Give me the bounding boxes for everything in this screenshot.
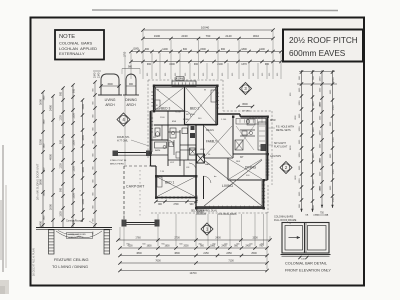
feature ceiling boxed note — [67, 233, 93, 239]
left dimension col 5 — [82, 100, 84, 222]
bed2 robe — [211, 90, 217, 102]
wall top bed block — [153, 85, 218, 87]
kitchen block interior — [232, 117, 234, 155]
note box — [55, 30, 104, 60]
border frame — [31, 18, 365, 286]
porch edge — [113, 152, 151, 154]
right dimension col 1 — [301, 70, 303, 212]
laundry tub — [182, 128, 188, 134]
feature ceiling line — [36, 227, 112, 229]
bath fixture — [155, 142, 167, 148]
gas hws box — [176, 77, 184, 81]
bottom dimension row 2 — [120, 247, 267, 249]
wall right bed2 — [216, 86, 218, 126]
porch pier right — [146, 151, 152, 157]
hall wall upper right — [217, 113, 240, 115]
utility extra lines — [168, 131, 180, 133]
left dimension col 2 — [52, 96, 54, 227]
porch pier left — [113, 151, 119, 157]
wall left mid — [150, 111, 152, 153]
shower dark square — [197, 154, 205, 163]
bed divider wall — [184, 87, 186, 111]
window sill — [281, 254, 331, 256]
bottom dimension row 3 — [120, 255, 267, 257]
dining arch detail — [126, 74, 136, 95]
bed1 cross — [157, 177, 195, 197]
living arch detail — [101, 74, 119, 95]
family cross — [204, 126, 232, 157]
living bottom wall — [196, 207, 264, 209]
bed3 bottom wall — [154, 110, 185, 112]
window detail inner frames — [285, 226, 303, 251]
right dims top connector line — [297, 83, 337, 85]
right dimension col 2 — [312, 70, 314, 212]
kitchen bench — [240, 129, 255, 131]
living cross — [204, 160, 262, 206]
section marker 1 — [201, 223, 213, 235]
top dimension row 4 — [131, 61, 281, 63]
kitchen cross — [236, 126, 254, 150]
left dimension col 1 — [42, 92, 44, 227]
section marker 4 — [117, 113, 130, 126]
feature ceiling left post — [49, 230, 55, 254]
left dimension col 4 — [72, 85, 74, 227]
left margin scan marks — [2, 145, 4, 272]
utility cluster walls — [154, 124, 196, 126]
window mullion — [304, 223, 306, 254]
house right wall upper — [267, 117, 269, 181]
section marker 2 — [280, 162, 292, 174]
corner blocks — [153, 85, 155, 87]
right dimension col 4 — [332, 70, 334, 208]
feature ceiling swag arcs — [56, 231, 102, 238]
pantry — [235, 140, 243, 150]
vanity fixture — [170, 128, 176, 138]
bed1 sub dims — [156, 201, 196, 203]
dim 8600 kitchen — [238, 106, 253, 108]
window arrow — [289, 237, 301, 239]
eaves dashed outline — [148, 79, 223, 81]
left dimension col 3 — [62, 88, 64, 227]
family dining wall — [232, 154, 234, 158]
dining cross — [229, 159, 262, 179]
inner wall lines cavity — [154, 87, 156, 110]
door arcs — [185, 111, 191, 117]
left dimension col 6 — [94, 82, 96, 227]
entry steps — [196, 209, 204, 211]
carport pier left — [122, 220, 127, 227]
kitchen top wall — [240, 116, 268, 118]
feature ceiling right post — [104, 230, 110, 254]
hot water unit — [190, 133, 195, 138]
scanner streak top — [92, 9, 338, 12]
top dimension row 1 overall — [143, 29, 273, 31]
window detail outer frame — [282, 223, 329, 254]
bottom dimension row 1 left — [118, 239, 270, 241]
bed2 cross — [186, 88, 216, 123]
wc fixture — [155, 128, 160, 136]
bottom dimension row 4 — [120, 262, 267, 264]
bottom witness lines — [123, 214, 125, 246]
dining step wall — [264, 179, 268, 181]
carport bottom beam — [122, 222, 159, 224]
wall left bed3 — [153, 86, 155, 112]
top dimension row 3 — [131, 51, 281, 53]
dining room walls — [227, 158, 229, 180]
more window hatches — [151, 91, 154, 93]
living right wall — [263, 180, 265, 208]
wall porch to bed1 — [150, 153, 152, 167]
bed3 robe — [155, 100, 160, 109]
fridge dark — [261, 144, 267, 151]
section marker 3 — [240, 83, 252, 95]
entry walls — [195, 198, 197, 209]
roof pitch box — [283, 30, 363, 62]
bed2 bottom wall — [185, 124, 218, 126]
right dimension col 3 — [321, 70, 323, 208]
linen — [190, 148, 196, 155]
top witness lines — [142, 31, 144, 79]
witness to carport — [124, 55, 126, 165]
bottom dimension row 5 total — [120, 270, 267, 272]
carport center dashes — [139, 170, 141, 218]
utility small fixtures — [176, 152, 180, 158]
bed1 robe — [157, 177, 162, 187]
carport dashed left edge — [123, 166, 125, 221]
kitchen bench top — [236, 119, 266, 125]
bed1 outer walls — [156, 176, 196, 198]
carport pier right — [155, 220, 160, 227]
bed3 cross — [155, 88, 183, 110]
scan grain overlay — [30, 17, 364, 286]
sink circle — [246, 120, 250, 124]
bay window top — [172, 81, 196, 87]
top dimension row 2 — [143, 38, 273, 40]
